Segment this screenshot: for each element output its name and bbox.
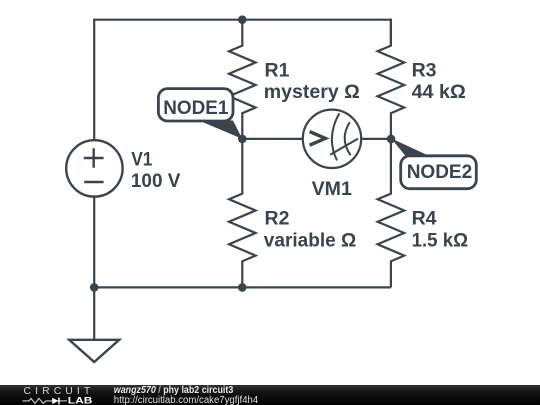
junction dot top [238, 15, 247, 24]
svg-text:http://circuitlab.com/cake7ygf: http://circuitlab.com/cake7ygfjf4h4 [114, 395, 259, 405]
junction dot node2 [387, 135, 396, 144]
voltage source V1 [66, 140, 122, 196]
svg-text:R1: R1 [265, 59, 290, 81]
svg-text:100 V: 100 V [131, 170, 181, 192]
svg-text:VM1: VM1 [312, 178, 352, 200]
wire bottom horizontal [94, 286, 391, 288]
svg-text:R2: R2 [265, 208, 290, 230]
junction dot bottom mid [238, 283, 247, 292]
svg-text:NODE1: NODE1 [163, 97, 228, 119]
voltmeter VM1 [303, 110, 361, 168]
node NODE2 [401, 156, 477, 189]
wire mid horizontal right (voltmeter to NODE2) [362, 138, 391, 140]
footer logo wire-resistor-diode [23, 398, 53, 403]
footer bar [0, 385, 540, 405]
svg-text:variable Ω: variable Ω [264, 229, 357, 251]
svg-text:1.5 kΩ: 1.5 kΩ [412, 229, 469, 251]
resistor R2 [229, 139, 256, 288]
junction dot node1 [238, 135, 247, 144]
svg-text:R4: R4 [412, 208, 437, 230]
svg-text:44 kΩ: 44 kΩ [412, 81, 466, 103]
node NODE1 [158, 89, 233, 121]
wire right vertical top corner [390, 19, 392, 46]
ground [93, 287, 95, 339]
svg-text:mystery Ω: mystery Ω [264, 81, 360, 103]
svg-text:LAB: LAB [68, 395, 93, 405]
svg-text:V1: V1 [131, 149, 152, 171]
svg-text:NODE2: NODE2 [407, 161, 473, 183]
wire mid horizontal left (NODE1 to voltmeter) [242, 138, 302, 140]
svg-text:R3: R3 [412, 59, 437, 81]
resistor R4 [378, 139, 405, 288]
wire left vertical lower (V1 to bottom wire) [93, 197, 95, 289]
wire left vertical upper (top wire to V1) [93, 19, 95, 141]
wire top horizontal [94, 19, 391, 21]
resistor R3 [378, 20, 405, 139]
resistor R1 [229, 20, 256, 139]
junction dot bottom left [90, 283, 99, 292]
